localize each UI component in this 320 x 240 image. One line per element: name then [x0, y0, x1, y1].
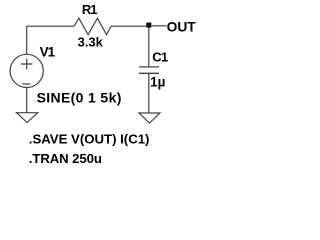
svg-text:V1: V1: [40, 45, 56, 60]
svg-text:1µ: 1µ: [150, 74, 165, 89]
wire from V1 top to resistor (corner at top-left): [27, 26, 74, 54]
wire from resistor to node: [111, 25, 146, 27]
svg-text:3.3k: 3.3k: [78, 35, 104, 50]
wire from node down to capacitor: [148, 28, 150, 67]
svg-text:SINE(0 1 5k): SINE(0 1 5k): [37, 90, 122, 106]
ground symbol under V1: [17, 113, 38, 123]
svg-text:.SAVE V(OUT) I(C1): .SAVE V(OUT) I(C1): [29, 132, 150, 147]
resistor R1: [74, 18, 111, 35]
svg-text:R1: R1: [82, 2, 97, 17]
node OUT junction square: [146, 23, 151, 28]
voltage source V1 circle: [10, 54, 43, 87]
ground symbol under C1: [139, 113, 160, 123]
svg-text:OUT: OUT: [167, 20, 197, 35]
svg-text:.TRAN 250u: .TRAN 250u: [29, 151, 102, 166]
capacitor C1 plates: [139, 67, 159, 73]
wire from node to OUT label: [151, 25, 166, 27]
V1 minus sign: [22, 83, 30, 85]
wire from V1 bottom to ground: [26, 88, 28, 113]
V1 plus sign: [21, 59, 32, 70]
wire from capacitor to ground: [148, 74, 150, 113]
svg-text:C1: C1: [152, 49, 168, 64]
